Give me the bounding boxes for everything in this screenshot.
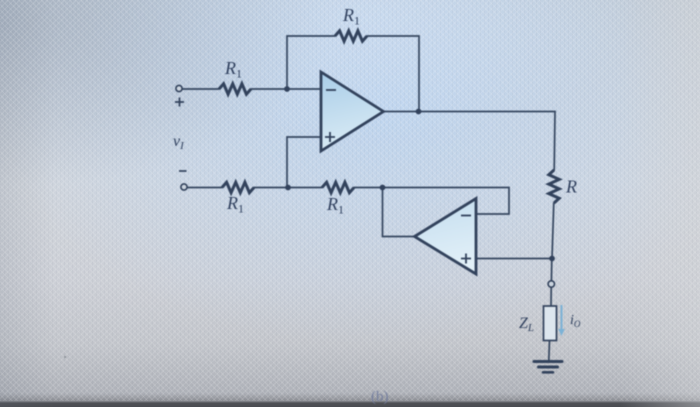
node: U1 output junction: [416, 109, 422, 115]
terminal: - input: [181, 184, 187, 190]
wire: resistor R to node B: [552, 203, 554, 259]
svg-text:ZL: ZL: [519, 315, 534, 334]
svg-text:R1: R1: [326, 194, 344, 217]
wire: feedback top right to output: [367, 36, 419, 112]
node B: load junction: [549, 256, 555, 262]
node C: bottom rail junction: [285, 185, 291, 191]
load ZL rectangle: [544, 306, 557, 341]
terminal: load open circle: [548, 281, 554, 287]
wire: - input terminal to R1 bottom: [187, 187, 222, 189]
wire: bottom R1 to node C: [254, 187, 322, 189]
svg-text:vI: vI: [173, 133, 185, 152]
wire: second bottom R1 to node D: [354, 187, 383, 189]
op-amp U1: [321, 72, 384, 151]
svg-text:R: R: [565, 177, 577, 197]
speck: [64, 356, 66, 358]
node A: U1 inverting input junction: [284, 86, 290, 92]
wire: U2 output to node D: [383, 188, 415, 237]
op-amp U2: [415, 199, 477, 275]
svg-text:R1: R1: [224, 58, 242, 81]
resistor R vertical: [549, 170, 559, 203]
wire: node B down to load terminal: [550, 259, 552, 282]
terminal: + input: [176, 85, 182, 91]
wire: + input terminal to R1: [182, 88, 219, 90]
wire: node D to U2 inverting input: [383, 188, 510, 215]
ground: [534, 362, 562, 373]
wire: ZL to ground: [548, 341, 551, 362]
wire: U1 noninverting input down to bottom rail: [287, 137, 321, 188]
resistor R1 input top: [219, 84, 251, 94]
svg-text:iO: iO: [570, 313, 581, 329]
node D: U2 output junction: [380, 185, 386, 191]
wire: U1 output to right rail: [384, 111, 556, 113]
plus sign at input: [175, 98, 184, 107]
svg-text:R1: R1: [342, 5, 360, 28]
svg-text:(b): (b): [371, 389, 389, 405]
wire: right rail down to resistor R: [553, 112, 556, 171]
wire: feedback riser from node A: [287, 36, 335, 89]
wire: load terminal to ZL: [550, 287, 552, 306]
resistor R1 bottom middle: [322, 182, 354, 192]
resistor R1 feedback: [335, 31, 367, 41]
current arrow io: [558, 305, 565, 336]
minus sign at input: [179, 170, 187, 172]
wire: U2 noninverting input to node B: [476, 258, 552, 260]
resistor R1 bottom left: [222, 182, 254, 192]
wire: R1 to op-amp U1 inverting input: [251, 88, 321, 90]
svg-text:R1: R1: [226, 193, 244, 216]
